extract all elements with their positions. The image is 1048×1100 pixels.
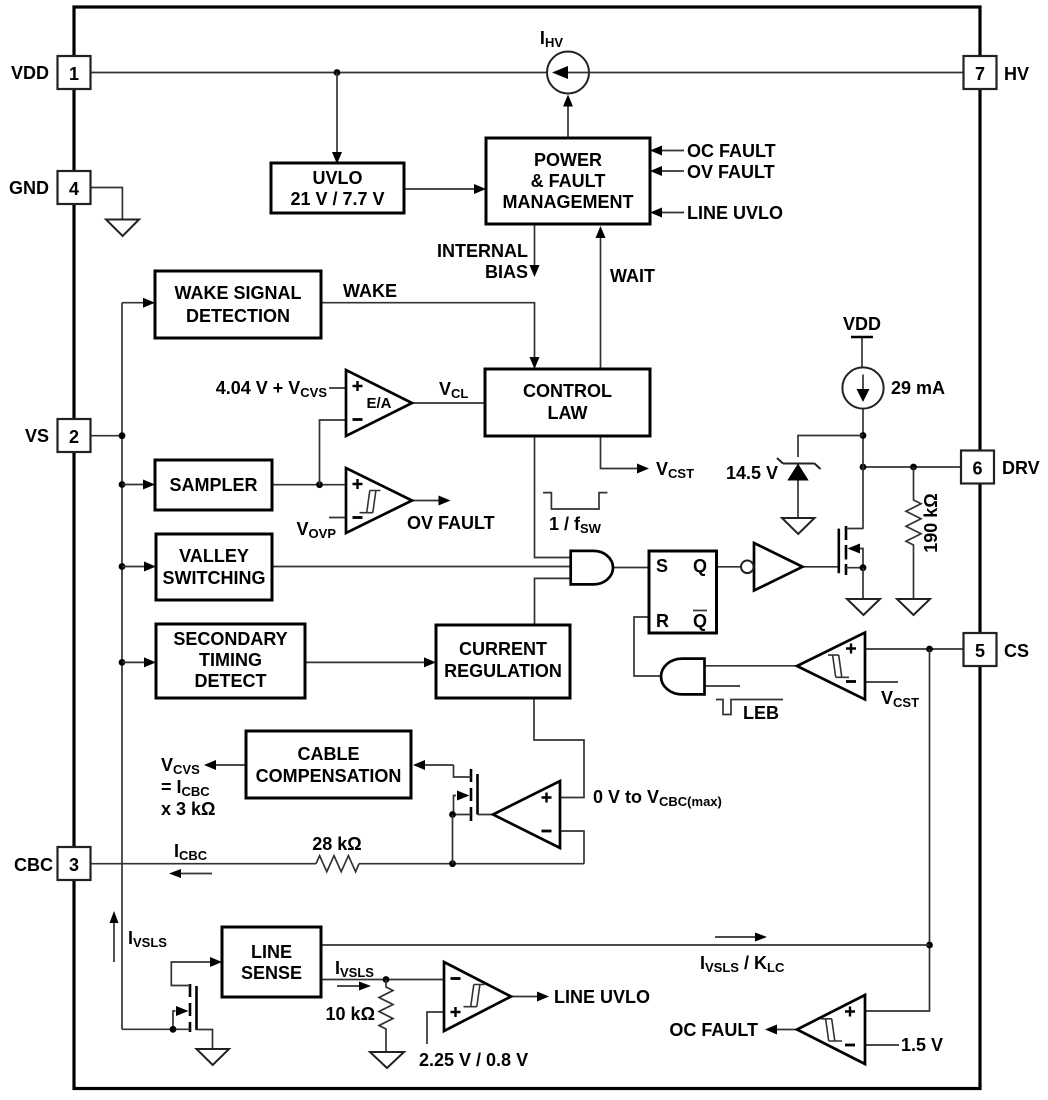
node line-sense gate-source junction — [170, 1026, 177, 1033]
wire bus to SAMPLER input — [122, 480, 155, 490]
current source IHV — [547, 52, 589, 94]
wire CS pin5 to comparator + input — [865, 648, 964, 650]
wire cable mosfet drain to CABLE COMPENSATION input — [413, 760, 454, 770]
svg-text:CONTROL: CONTROL — [523, 381, 612, 401]
svg-text:CABLE: CABLE — [298, 744, 360, 764]
label 10 kOhm — [326, 1004, 375, 1024]
wire AND gate output to latch S input — [613, 567, 649, 569]
pin label HV — [1004, 64, 1029, 84]
pin 7 HV — [964, 56, 997, 89]
resistor 28k — [316, 856, 359, 872]
svg-text:10 kΩ: 10 kΩ — [326, 1004, 375, 1024]
label IVSLS (line sense output) — [335, 958, 374, 980]
svg-text:OV FAULT: OV FAULT — [687, 162, 775, 182]
ground (driver mosfet) — [847, 599, 880, 615]
label LEB — [743, 703, 779, 723]
node VDD/UVLO branch junction — [334, 69, 341, 76]
svg-text:2.25 V / 0.8 V: 2.25 V / 0.8 V — [419, 1050, 528, 1070]
label OV FAULT (output) — [407, 513, 495, 533]
node DRV mosfet drain junction — [860, 464, 867, 471]
gate AND LEB blanking (mirrored) — [661, 659, 705, 695]
wire OC FAULT comparator output arrow — [765, 1025, 797, 1035]
label 190 kOhm (rotated) — [921, 493, 941, 552]
ground (190k resistor) — [897, 599, 930, 615]
label VDD (driver supply) — [843, 314, 881, 334]
label VCVS = ICBC x 3 kOhm — [161, 755, 215, 819]
svg-text:CS: CS — [1004, 641, 1029, 661]
wire CONTROL LAW bottom to AND gate top input — [535, 436, 571, 558]
label 2.25 V / 0.8 V — [419, 1050, 528, 1070]
annotation arrow ICBC current direction — [169, 869, 212, 878]
svg-text:DETECTION: DETECTION — [186, 306, 290, 326]
wire zener branch — [798, 436, 863, 458]
pin label GND — [9, 178, 49, 198]
label 0 V to VCBC(max) — [593, 787, 722, 809]
pin label VS — [25, 426, 49, 446]
node IVSLS/KLC junction — [926, 942, 933, 949]
label 4.04 V + VCVS — [216, 378, 328, 400]
node CBC resistor tap junction — [449, 860, 456, 867]
node sampler branch junction — [119, 481, 126, 488]
svg-text:VS: VS — [25, 426, 49, 446]
wire CBC pin3 net horizontal — [91, 863, 584, 865]
wire VS sense bus vertical — [121, 303, 123, 1030]
svg-text:MANAGEMENT: MANAGEMENT — [503, 192, 634, 212]
ground (10k resistor) — [370, 1052, 404, 1068]
label INTERNAL BIAS — [437, 241, 528, 282]
node 10k resistor junction — [383, 976, 390, 983]
svg-text:VDD: VDD — [843, 314, 881, 334]
svg-text:LINE: LINE — [251, 942, 292, 962]
wire WAIT from CONTROL LAW up to POWER &amp; FAULT MANAGEMENT — [596, 226, 606, 369]
resistor 10k — [379, 980, 393, 1053]
block SECONDARY TIMING DETECT — [156, 624, 305, 698]
node VS pin junction — [119, 432, 126, 439]
label VCST (control law output) — [656, 459, 694, 481]
svg-text:WAKE SIGNAL: WAKE SIGNAL — [174, 283, 301, 303]
block SAMPLER — [155, 460, 272, 510]
wire bus to WAKE SIGNAL DETECTION input — [122, 298, 155, 308]
label ICBC — [174, 841, 208, 863]
svg-text:SECONDARY: SECONDARY — [173, 629, 287, 649]
wire 2.25V reference to LINE UVLO + input — [427, 1012, 444, 1044]
ground (line-sense mosfet) — [197, 1049, 230, 1065]
svg-text:SWITCHING: SWITCHING — [163, 568, 266, 588]
wire inverter output to driver mosfet gate — [803, 566, 839, 568]
label 1.5 V — [901, 1035, 943, 1055]
label 29 mA — [891, 378, 945, 398]
label 14.5 V — [726, 463, 778, 483]
svg-text:DETECT: DETECT — [195, 671, 267, 691]
pin 5 CS — [964, 633, 997, 666]
svg-text:SAMPLER: SAMPLER — [169, 475, 257, 495]
svg-text:COMPENSATION: COMPENSATION — [256, 766, 402, 786]
svg-text:REGULATION: REGULATION — [444, 661, 562, 681]
op-amp cable compensation — [493, 781, 560, 848]
wire latch Q output to inverter bubble — [717, 566, 742, 568]
block VALLEY SWITCHING — [156, 534, 272, 600]
wire OC FAULT input arrow — [650, 146, 684, 156]
wire CS comparator output to LEB gate top input — [705, 665, 798, 667]
wire cable op-amp - input feedback to CBC net — [560, 831, 584, 864]
svg-text:CURRENT: CURRENT — [459, 639, 547, 659]
pin 3 CBC — [58, 847, 91, 880]
svg-text:6: 6 — [972, 459, 982, 479]
pin 4 GND — [58, 171, 91, 204]
svg-text:WAKE: WAKE — [343, 281, 397, 301]
current source 29mA — [842, 367, 883, 408]
pin 1 VDD — [58, 56, 91, 89]
svg-text:3: 3 — [69, 855, 79, 875]
comparator CS current sense — [797, 633, 865, 700]
pin 2 VS — [58, 419, 91, 452]
wire OV FAULT input arrow — [650, 166, 684, 176]
wire VDD pin1 to HV pin7 top rail — [91, 72, 964, 74]
wire bus to SECONDARY TIMING DETECT input — [122, 657, 156, 667]
transistor cable-comp MOSFET — [453, 765, 494, 821]
node secondary timing branch junction — [119, 659, 126, 666]
wire VALLEY SWITCHING output to AND gate middle input — [272, 566, 571, 568]
label VCL — [439, 379, 468, 401]
comparator LINE UVLO — [444, 962, 511, 1031]
wire DRV net to pin6 — [863, 466, 964, 468]
svg-text:HV: HV — [1004, 64, 1029, 84]
wire VDD branch down into UVLO block — [332, 73, 342, 165]
wire IHV control from POWER &amp; FAULT MANAGEMENT up to current source — [563, 95, 573, 139]
wire 1.5V reference to OC FAULT comparator - input — [865, 1044, 899, 1046]
svg-text:E/A: E/A — [366, 395, 391, 412]
latch SR flip-flop — [649, 551, 717, 633]
label IVSLS / KLC — [700, 953, 785, 975]
pulse symbol LEB — [716, 700, 783, 715]
svg-text:S: S — [656, 556, 668, 576]
ground (zener) — [782, 518, 815, 534]
svg-text:29 mA: 29 mA — [891, 378, 945, 398]
svg-text:2: 2 — [69, 427, 79, 447]
svg-text:Q: Q — [693, 556, 707, 576]
svg-text:1.5 V: 1.5 V — [901, 1035, 943, 1055]
block CONTROL LAW — [485, 369, 650, 436]
label LINE UVLO (output) — [554, 987, 650, 1007]
svg-text:& FAULT: & FAULT — [531, 171, 606, 191]
svg-text:7: 7 — [975, 64, 985, 84]
label IVSLS (bus) — [128, 928, 167, 950]
label WAIT — [610, 266, 655, 286]
node valley branch junction — [119, 563, 126, 570]
svg-text:BIAS: BIAS — [485, 262, 528, 282]
wire SAMPLER output to OVP comparator — [272, 484, 346, 486]
supply VDD stub (driver section) — [851, 336, 873, 339]
svg-text:INTERNAL: INTERNAL — [437, 241, 528, 261]
wire VCST reference to CS comparator - input — [865, 681, 898, 683]
wire zener anode to ground — [797, 481, 799, 519]
svg-text:CBC: CBC — [14, 855, 53, 875]
node 190k resistor junction — [910, 464, 917, 471]
label OV FAULT (input) — [687, 162, 775, 182]
svg-text:x 3 kΩ: x 3 kΩ — [161, 799, 215, 819]
block UVLO 21V/7.7V — [271, 163, 404, 213]
annotation arrow IVSLS right (line sense output) — [337, 982, 371, 991]
pin label DRV — [1002, 458, 1040, 478]
wire LEB gate bottom input stub — [705, 685, 741, 687]
svg-text:OV FAULT: OV FAULT — [407, 513, 495, 533]
svg-text:DRV: DRV — [1002, 458, 1040, 478]
zener diode 14.5V — [777, 458, 821, 481]
comparator OVP — [346, 468, 412, 533]
svg-text:1: 1 — [69, 64, 79, 84]
pin label CBC — [14, 855, 53, 875]
wire VCVS output arrow from CABLE COMPENSATION — [204, 760, 246, 770]
label 28 kOhm — [312, 834, 361, 854]
svg-text:LEB: LEB — [743, 703, 779, 723]
block WAKE SIGNAL DETECTION — [155, 271, 321, 338]
block POWER &amp; FAULT MANAGEMENT — [486, 138, 650, 224]
block LINE SENSE — [222, 927, 321, 997]
node zener branch junction — [860, 432, 867, 439]
wire WAKE from WAKE SIGNAL DETECTION to CONTROL LAW — [321, 303, 540, 369]
pin label CS — [1004, 641, 1029, 661]
label OC FAULT (input) — [687, 141, 776, 161]
svg-text:SENSE: SENSE — [241, 963, 302, 983]
label WAKE — [343, 281, 397, 301]
svg-text:WAIT: WAIT — [610, 266, 655, 286]
wire INTERNAL BIAS output arrow — [530, 224, 540, 277]
wire SECONDARY TIMING DETECT to CURRENT REGULATION — [305, 657, 436, 667]
wire VCL E/A output to CONTROL LAW — [412, 402, 485, 404]
svg-text:POWER: POWER — [534, 150, 602, 170]
wire LINE UVLO comparator output arrow — [511, 992, 549, 1002]
label VOVP — [297, 519, 337, 541]
svg-text:OC FAULT: OC FAULT — [669, 1020, 758, 1040]
wire GND pin4 to ground symbol — [90, 188, 122, 220]
wire sampler node to E/A - input — [320, 420, 347, 485]
svg-text:VALLEY: VALLEY — [179, 546, 249, 566]
node CS junction — [926, 646, 933, 653]
gate AND 3-input PWM — [571, 551, 613, 585]
svg-text:VDD: VDD — [11, 63, 49, 83]
annotation arrow IVSLS up (bus) — [110, 911, 119, 962]
svg-text:Q: Q — [693, 611, 707, 631]
wire 29mA source down to DRV net — [862, 409, 864, 530]
svg-text:TIMING: TIMING — [199, 650, 262, 670]
svg-text:21 V / 7.7 V: 21 V / 7.7 V — [290, 189, 384, 209]
label VCST (CS comparator ref) — [881, 688, 919, 710]
wire IVSLS/KLC from LINE SENSE to CS node — [321, 944, 930, 946]
node driver mosfet source junction — [860, 564, 867, 599]
wire CURRENT REGULATION top to AND gate bottom input — [535, 578, 571, 625]
transistor driver MOSFET — [839, 526, 863, 575]
node sampler output junction — [316, 481, 323, 488]
wire VDD supply stub to 29mA source — [861, 337, 863, 368]
ground (GND pin) — [106, 220, 139, 237]
svg-text:5: 5 — [975, 641, 985, 661]
wire OV FAULT comparator output arrow — [412, 496, 451, 506]
wire CS node down to OC FAULT comparator — [865, 649, 930, 1011]
svg-text:LAW: LAW — [548, 403, 588, 423]
node cable mosfet gate-source junction — [449, 811, 456, 864]
svg-text:28 kΩ: 28 kΩ — [312, 834, 361, 854]
svg-text:LINE UVLO: LINE UVLO — [554, 987, 650, 1007]
wire latch R input — [634, 617, 662, 676]
resistor 190k — [906, 467, 921, 599]
wire VCST output arrow from CONTROL LAW — [601, 436, 650, 474]
svg-text:190 kΩ: 190 kΩ — [921, 493, 941, 552]
svg-text:LINE UVLO: LINE UVLO — [687, 203, 783, 223]
transistor line-sense MOSFET — [122, 957, 222, 1049]
wire LINE SENSE lower output to LINE UVLO comparator - input — [321, 979, 444, 981]
pin 6 DRV — [961, 451, 994, 484]
wire CURRENT REGULATION bottom to cable op-amp + input — [534, 699, 584, 798]
annotation arrow IVSLS/KLC right — [715, 933, 767, 942]
wire 4.04V reference to E/A + input — [329, 387, 346, 389]
pulse symbol 1/fsw — [543, 493, 607, 509]
wire bus to VALLEY SWITCHING input — [122, 562, 156, 572]
label LINE UVLO (input) — [687, 203, 783, 223]
label OC FAULT (output) — [669, 1020, 758, 1040]
inverter driver buffer with bubble — [741, 543, 803, 591]
pin label VDD — [11, 63, 49, 83]
wire VOVP reference to OVP - input — [329, 517, 346, 519]
block CURRENT REGULATION — [436, 625, 570, 698]
wire UVLO output to POWER &amp; FAULT MANAGEMENT — [404, 184, 486, 194]
svg-text:UVLO: UVLO — [312, 168, 362, 188]
svg-text:R: R — [656, 611, 669, 631]
wire VS pin2 to bus — [90, 435, 122, 437]
block CABLE COMPENSATION — [246, 731, 411, 798]
label 1/fsw — [549, 514, 602, 536]
op-amp E/A error amplifier — [346, 370, 412, 436]
svg-text:OC FAULT: OC FAULT — [687, 141, 776, 161]
label IHV — [540, 28, 563, 50]
comparator OC FAULT — [797, 995, 865, 1064]
svg-text:GND: GND — [9, 178, 49, 198]
wire LINE UVLO input arrow — [650, 208, 684, 218]
svg-text:4: 4 — [69, 179, 79, 199]
svg-text:14.5 V: 14.5 V — [726, 463, 778, 483]
